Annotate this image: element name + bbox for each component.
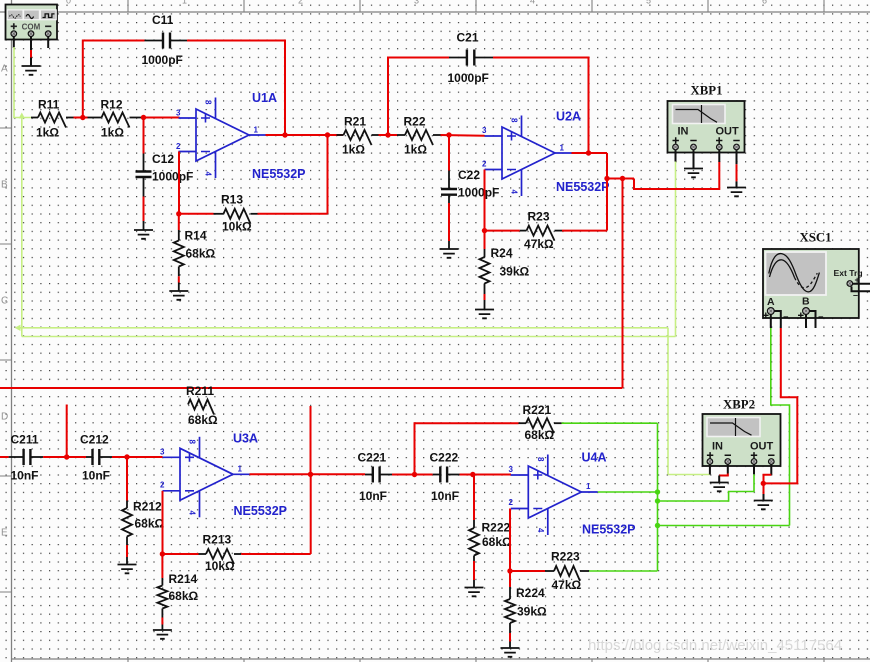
wire net to XBP2 vertical	[667, 328, 669, 475]
resistor R223	[510, 570, 545, 572]
wire gen + stub	[13, 37, 15, 49]
svg-text:10nF: 10nF	[11, 469, 39, 483]
wire XSC1 A- red to ground net	[764, 328, 798, 483]
svg-text:B: B	[1, 180, 8, 191]
svg-text:B: B	[802, 296, 810, 308]
svg-text:3: 3	[160, 448, 165, 457]
svg-text:NE5532P: NE5532P	[234, 504, 288, 518]
svg-text:C12: C12	[152, 152, 174, 166]
capacitor C211	[0, 456, 9, 458]
ground R222	[465, 588, 484, 597]
svg-text:C211: C211	[11, 433, 39, 447]
node U4A feedback junction	[507, 568, 512, 573]
node R11/C11 junction	[80, 115, 85, 120]
node output/XSC1 branch	[655, 523, 660, 528]
resistor R224	[509, 571, 511, 587]
svg-text:C: C	[1, 296, 8, 307]
svg-text:2: 2	[509, 498, 514, 507]
svg-text:4: 4	[204, 172, 213, 177]
resistor R211	[188, 400, 214, 415]
svg-text:U1A: U1A	[252, 91, 277, 105]
wire output net down	[657, 492, 659, 571]
wire R221 left leg	[415, 423, 519, 474]
wire R21-R22	[379, 134, 398, 136]
wire C11 right down to output	[284, 40, 286, 136]
resistor R23	[485, 230, 520, 232]
svg-text:2: 2	[482, 160, 487, 169]
ground R224	[501, 648, 520, 657]
node R12/C12 junction	[141, 115, 146, 120]
node C212/R212 junction	[124, 454, 129, 459]
svg-text:5: 5	[646, 0, 651, 6]
wire R221 right leg green	[562, 422, 658, 424]
svg-text:C212: C212	[80, 433, 109, 447]
svg-text:1: 1	[254, 126, 259, 135]
svg-text:1kΩ: 1kΩ	[342, 143, 365, 157]
svg-text:1000pF: 1000pF	[152, 170, 193, 184]
svg-text:R14: R14	[185, 229, 207, 243]
svg-text:R12: R12	[101, 98, 123, 112]
scope waveform	[769, 254, 820, 292]
svg-text:A: A	[1, 64, 8, 75]
wire gen minus stub	[47, 37, 49, 49]
resistor R214	[161, 554, 163, 578]
svg-text:4: 4	[188, 511, 197, 516]
wire to XSC1 A+	[658, 525, 790, 527]
svg-text:1: 1	[238, 465, 243, 474]
svg-text:NE5532P: NE5532P	[556, 180, 610, 194]
node stage3 feed branch	[620, 176, 625, 181]
node output/XBP2 OUT+ branch	[655, 498, 660, 503]
svg-text:R23: R23	[528, 210, 550, 224]
svg-text:R222: R222	[482, 521, 511, 535]
svg-text:OUT: OUT	[750, 441, 774, 453]
svg-text:0: 0	[66, 0, 71, 6]
svg-text:39kΩ: 39kΩ	[500, 265, 530, 279]
wire XBP1 IN+ stub	[675, 150, 677, 162]
ground C22	[440, 249, 459, 258]
svg-text:68kΩ: 68kΩ	[169, 589, 199, 603]
wire C211-C212	[43, 456, 86, 458]
wire net to XBP1 horizontal	[22, 336, 676, 338]
wire gen COM to ground	[30, 37, 32, 51]
svg-text:C22: C22	[458, 168, 480, 182]
svg-text:XBP2: XBP2	[723, 398, 755, 412]
svg-text:68kΩ: 68kΩ	[188, 413, 218, 427]
svg-text:E: E	[1, 528, 8, 539]
capacitor C212	[86, 456, 93, 458]
svg-text:2: 2	[160, 481, 165, 490]
svg-text:R24: R24	[491, 246, 513, 260]
wire long horizontal stage 3 feed	[0, 387, 623, 389]
wire U4A output green	[598, 491, 658, 493]
wire XBP2 IN- to ground	[727, 465, 729, 474]
svg-text:R212: R212	[133, 500, 162, 514]
wire XBP2 OUT+ stub	[753, 465, 755, 475]
resistor R22	[397, 134, 405, 136]
wire XBP2 OUT- red	[770, 465, 772, 475]
svg-text:C21: C21	[457, 31, 479, 45]
resistor R212	[126, 457, 128, 501]
svg-text:C11: C11	[152, 13, 174, 27]
svg-text:68kΩ: 68kΩ	[525, 428, 555, 442]
svg-text:R213: R213	[203, 533, 232, 547]
svg-text:NE5532P: NE5532P	[582, 523, 636, 537]
wire R13 up	[327, 135, 329, 214]
svg-text:R214: R214	[169, 572, 198, 586]
capacitor C21	[388, 57, 449, 59]
node output/R13	[325, 132, 330, 137]
resistor R213	[162, 553, 198, 555]
node C221/C222 junction	[412, 472, 417, 477]
svg-text:68kΩ: 68kΩ	[482, 535, 512, 549]
wire R23 right up	[606, 179, 608, 231]
wire R211 left leg	[66, 405, 68, 458]
ground XBP1 OUT-	[727, 188, 746, 197]
wire net to XBP2 horizontal	[20, 327, 668, 329]
svg-text:IN: IN	[678, 126, 689, 138]
node output/C11	[282, 132, 287, 137]
svg-text:1000pF: 1000pF	[458, 186, 499, 200]
wire XBP1 IN- ground	[693, 150, 695, 169]
svg-text:U2A: U2A	[556, 110, 581, 124]
capacitor C22	[448, 135, 450, 171]
svg-text:2: 2	[176, 142, 181, 151]
svg-text:1000pF: 1000pF	[142, 53, 183, 67]
wire U3A inverting down	[162, 491, 164, 554]
wire XSC1 A- stub L	[774, 311, 781, 328]
wire output to stage3 branch	[607, 178, 634, 180]
svg-text:4: 4	[536, 528, 545, 533]
wire long vertical to stage 3	[622, 179, 624, 389]
resistor R11	[31, 117, 38, 119]
node output net	[655, 489, 660, 494]
svg-text:3: 3	[414, 0, 419, 6]
svg-text:R224: R224	[516, 586, 545, 600]
wire C21 left down	[387, 57, 389, 136]
node output/R23 branch	[604, 176, 609, 181]
node input net branch arrow	[19, 113, 25, 119]
wire R12 to U1A +	[144, 117, 180, 119]
node output/R211	[308, 472, 313, 477]
svg-text:10nF: 10nF	[359, 489, 387, 503]
svg-text:10kΩ: 10kΩ	[222, 220, 252, 234]
svg-text:10nF: 10nF	[82, 469, 110, 483]
svg-text:R11: R11	[38, 98, 60, 112]
resistor R221	[526, 418, 554, 433]
wire input net down left side	[21, 118, 23, 337]
wire C212 to U3A	[112, 456, 127, 458]
svg-text:C221: C221	[358, 451, 387, 465]
node output/C21 feedback	[586, 150, 591, 155]
resistor R21	[328, 134, 337, 136]
svg-text:R211: R211	[186, 384, 214, 398]
svg-text:R22: R22	[404, 115, 426, 129]
svg-text:6: 6	[762, 0, 767, 6]
svg-text:COM: COM	[22, 22, 41, 31]
wire XBP1 OUT- to ground	[736, 150, 738, 164]
wire net to XBP2 IN+	[668, 474, 710, 476]
svg-text:https://blog.csdn.net/weixin_4: https://blog.csdn.net/weixin_45117564	[588, 637, 842, 654]
wire C21 right down	[588, 57, 590, 154]
wire R223 right green	[589, 570, 658, 572]
node U1A feedback junction	[176, 211, 181, 216]
svg-text:1kΩ: 1kΩ	[36, 126, 59, 140]
wire to XBP1 OUT+	[634, 162, 719, 190]
op-amp U2A	[502, 127, 555, 179]
node U2A feedback junction	[482, 228, 487, 233]
ground R14	[169, 291, 188, 300]
capacitor C12	[143, 118, 145, 154]
resistor R12	[88, 117, 102, 119]
capacitor C221	[365, 474, 373, 476]
resistor R222	[473, 475, 475, 521]
wire U3A output	[250, 473, 366, 475]
wire input net vertical from generator	[13, 47, 15, 118]
op-amp U4A	[528, 466, 581, 518]
op-amp U1A	[196, 109, 249, 161]
svg-text:XBP1: XBP1	[691, 84, 723, 98]
ground XBP2 OUT- and XSC1 A-	[754, 501, 773, 510]
wire C221-C222	[392, 474, 433, 476]
ground R212	[118, 565, 137, 574]
wire C222 to U4A	[460, 474, 473, 476]
svg-text:U3A: U3A	[233, 432, 258, 446]
svg-text:U4A: U4A	[582, 451, 607, 465]
node OUT-/A- ground junction	[761, 481, 766, 486]
svg-text:10kΩ: 10kΩ	[205, 559, 235, 573]
svg-text:1: 1	[586, 482, 591, 491]
svg-text:A: A	[767, 296, 775, 308]
svg-text:39kΩ: 39kΩ	[517, 605, 547, 619]
wire R11-R12	[74, 117, 88, 119]
capacitor C11	[83, 40, 145, 42]
svg-text:IN: IN	[712, 441, 723, 453]
resistor R14	[178, 214, 180, 230]
svg-text:3: 3	[509, 465, 514, 474]
wire U1A inverting down	[178, 152, 180, 214]
svg-text:68kΩ: 68kΩ	[186, 247, 216, 261]
ground C12	[134, 230, 153, 239]
node C222/R222 junction	[470, 472, 475, 477]
node R22/C22 junction	[446, 132, 451, 137]
svg-text:68kΩ: 68kΩ	[135, 517, 165, 531]
svg-text:2: 2	[298, 0, 303, 6]
svg-text:4: 4	[530, 0, 535, 6]
svg-text:8: 8	[510, 118, 519, 123]
wire U4A inverting down	[509, 509, 511, 572]
svg-text:C222: C222	[430, 451, 459, 465]
svg-text:D: D	[1, 412, 8, 423]
svg-text:8: 8	[536, 457, 545, 462]
wire R213 right up	[310, 474, 312, 554]
ground XBP2 IN-	[710, 483, 729, 492]
capacitor C222	[433, 474, 441, 476]
wire R211 right leg	[310, 406, 312, 474]
svg-text:R21: R21	[344, 115, 366, 129]
svg-text:3: 3	[482, 126, 487, 135]
svg-text:1: 1	[182, 0, 187, 6]
wire net to XBP1 vertical	[675, 162, 677, 337]
svg-text:4: 4	[510, 190, 519, 195]
svg-text:XSC1: XSC1	[800, 231, 832, 245]
wire R22 to U2A +	[441, 134, 485, 137]
node R21/C21 junction	[385, 132, 390, 137]
wire XBP1 OUT+ stub	[718, 150, 720, 162]
svg-text:1000pF: 1000pF	[448, 71, 489, 85]
svg-text:1kΩ: 1kΩ	[101, 126, 124, 140]
wire XSC1 A+ stub	[770, 315, 772, 329]
ground R24	[475, 310, 494, 319]
function generator XFG1	[6, 5, 58, 40]
resistor R13	[179, 213, 214, 215]
wire XSC1 A+ to output net	[771, 328, 790, 526]
node C211/C212 junction	[64, 454, 69, 459]
wire input net to R11	[13, 117, 31, 119]
svg-text:OUT: OUT	[716, 126, 740, 138]
wire C11 left down	[82, 40, 84, 119]
wire XBP2 IN+ stub	[709, 465, 711, 475]
wire U2A output	[572, 152, 608, 154]
resistor R24	[484, 231, 486, 249]
wire Ext Trg stubs	[853, 283, 870, 285]
svg-text:47kΩ: 47kΩ	[524, 237, 554, 251]
svg-text:R223: R223	[551, 550, 580, 564]
svg-text:R221: R221	[523, 403, 552, 417]
svg-text:NE5532P: NE5532P	[252, 167, 306, 181]
svg-text:47kΩ: 47kΩ	[552, 578, 582, 592]
wire output corner down	[606, 153, 608, 179]
ground gen COM	[22, 66, 41, 75]
svg-text:3: 3	[176, 109, 181, 118]
svg-text:1kΩ: 1kΩ	[404, 143, 427, 157]
svg-text:8: 8	[188, 440, 197, 445]
wire to XBP2 OUT+	[658, 474, 755, 501]
op-amp U3A	[180, 448, 233, 500]
ground XBP1 IN-	[684, 169, 703, 178]
wire U1A output	[266, 134, 344, 136]
wire XSC1 B stubs	[805, 315, 807, 329]
svg-text:10nF: 10nF	[431, 489, 459, 503]
svg-text:8: 8	[204, 100, 213, 105]
node U3A feedback junction	[160, 551, 165, 556]
wire U2A inverting down	[484, 170, 486, 231]
svg-text:1: 1	[560, 144, 565, 153]
svg-text:R13: R13	[221, 193, 243, 207]
ground R214	[153, 630, 172, 639]
